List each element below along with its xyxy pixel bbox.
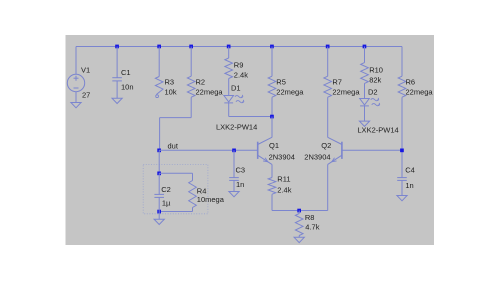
svg-text:D1: D1 bbox=[231, 84, 241, 93]
svg-text:22mega: 22mega bbox=[276, 88, 304, 97]
svg-text:2.4k: 2.4k bbox=[277, 186, 291, 195]
svg-text:R8: R8 bbox=[305, 213, 315, 222]
svg-text:C1: C1 bbox=[121, 68, 131, 77]
svg-text:Q2: Q2 bbox=[321, 141, 331, 150]
svg-text:R10: R10 bbox=[369, 66, 383, 75]
svg-text:82k: 82k bbox=[369, 76, 381, 85]
svg-text:4.7k: 4.7k bbox=[305, 222, 319, 231]
svg-text:10n: 10n bbox=[121, 82, 134, 91]
svg-text:R3: R3 bbox=[165, 78, 175, 87]
svg-text:22mega: 22mega bbox=[196, 88, 224, 97]
svg-text:2N3904: 2N3904 bbox=[269, 153, 295, 162]
svg-text:R9: R9 bbox=[234, 61, 244, 70]
svg-text:D2: D2 bbox=[368, 87, 378, 96]
svg-text:C2: C2 bbox=[161, 185, 171, 194]
svg-text:Q1: Q1 bbox=[269, 141, 279, 150]
svg-text:22mega: 22mega bbox=[332, 88, 360, 97]
svg-text:22mega: 22mega bbox=[406, 88, 434, 97]
svg-text:1n: 1n bbox=[405, 181, 413, 190]
svg-text:1n: 1n bbox=[236, 180, 244, 189]
svg-text:R2: R2 bbox=[196, 78, 206, 87]
svg-text:2N3904: 2N3904 bbox=[304, 153, 330, 162]
svg-text:2.4k: 2.4k bbox=[234, 71, 248, 80]
svg-text:R6: R6 bbox=[406, 78, 416, 87]
svg-text:V1: V1 bbox=[81, 65, 90, 74]
svg-text:dut: dut bbox=[168, 141, 179, 150]
svg-text:LXK2-PW14: LXK2-PW14 bbox=[357, 126, 398, 135]
svg-text:27: 27 bbox=[82, 91, 90, 100]
svg-text:R11: R11 bbox=[277, 175, 290, 184]
svg-text:1µ: 1µ bbox=[162, 198, 171, 207]
svg-text:C4: C4 bbox=[405, 166, 415, 175]
svg-text:10k: 10k bbox=[165, 88, 177, 97]
svg-text:LXK2-PW14: LXK2-PW14 bbox=[216, 122, 257, 131]
svg-text:R7: R7 bbox=[332, 78, 342, 87]
svg-text:R5: R5 bbox=[276, 78, 286, 87]
svg-text:10mega: 10mega bbox=[197, 195, 225, 204]
svg-text:C3: C3 bbox=[236, 165, 246, 174]
